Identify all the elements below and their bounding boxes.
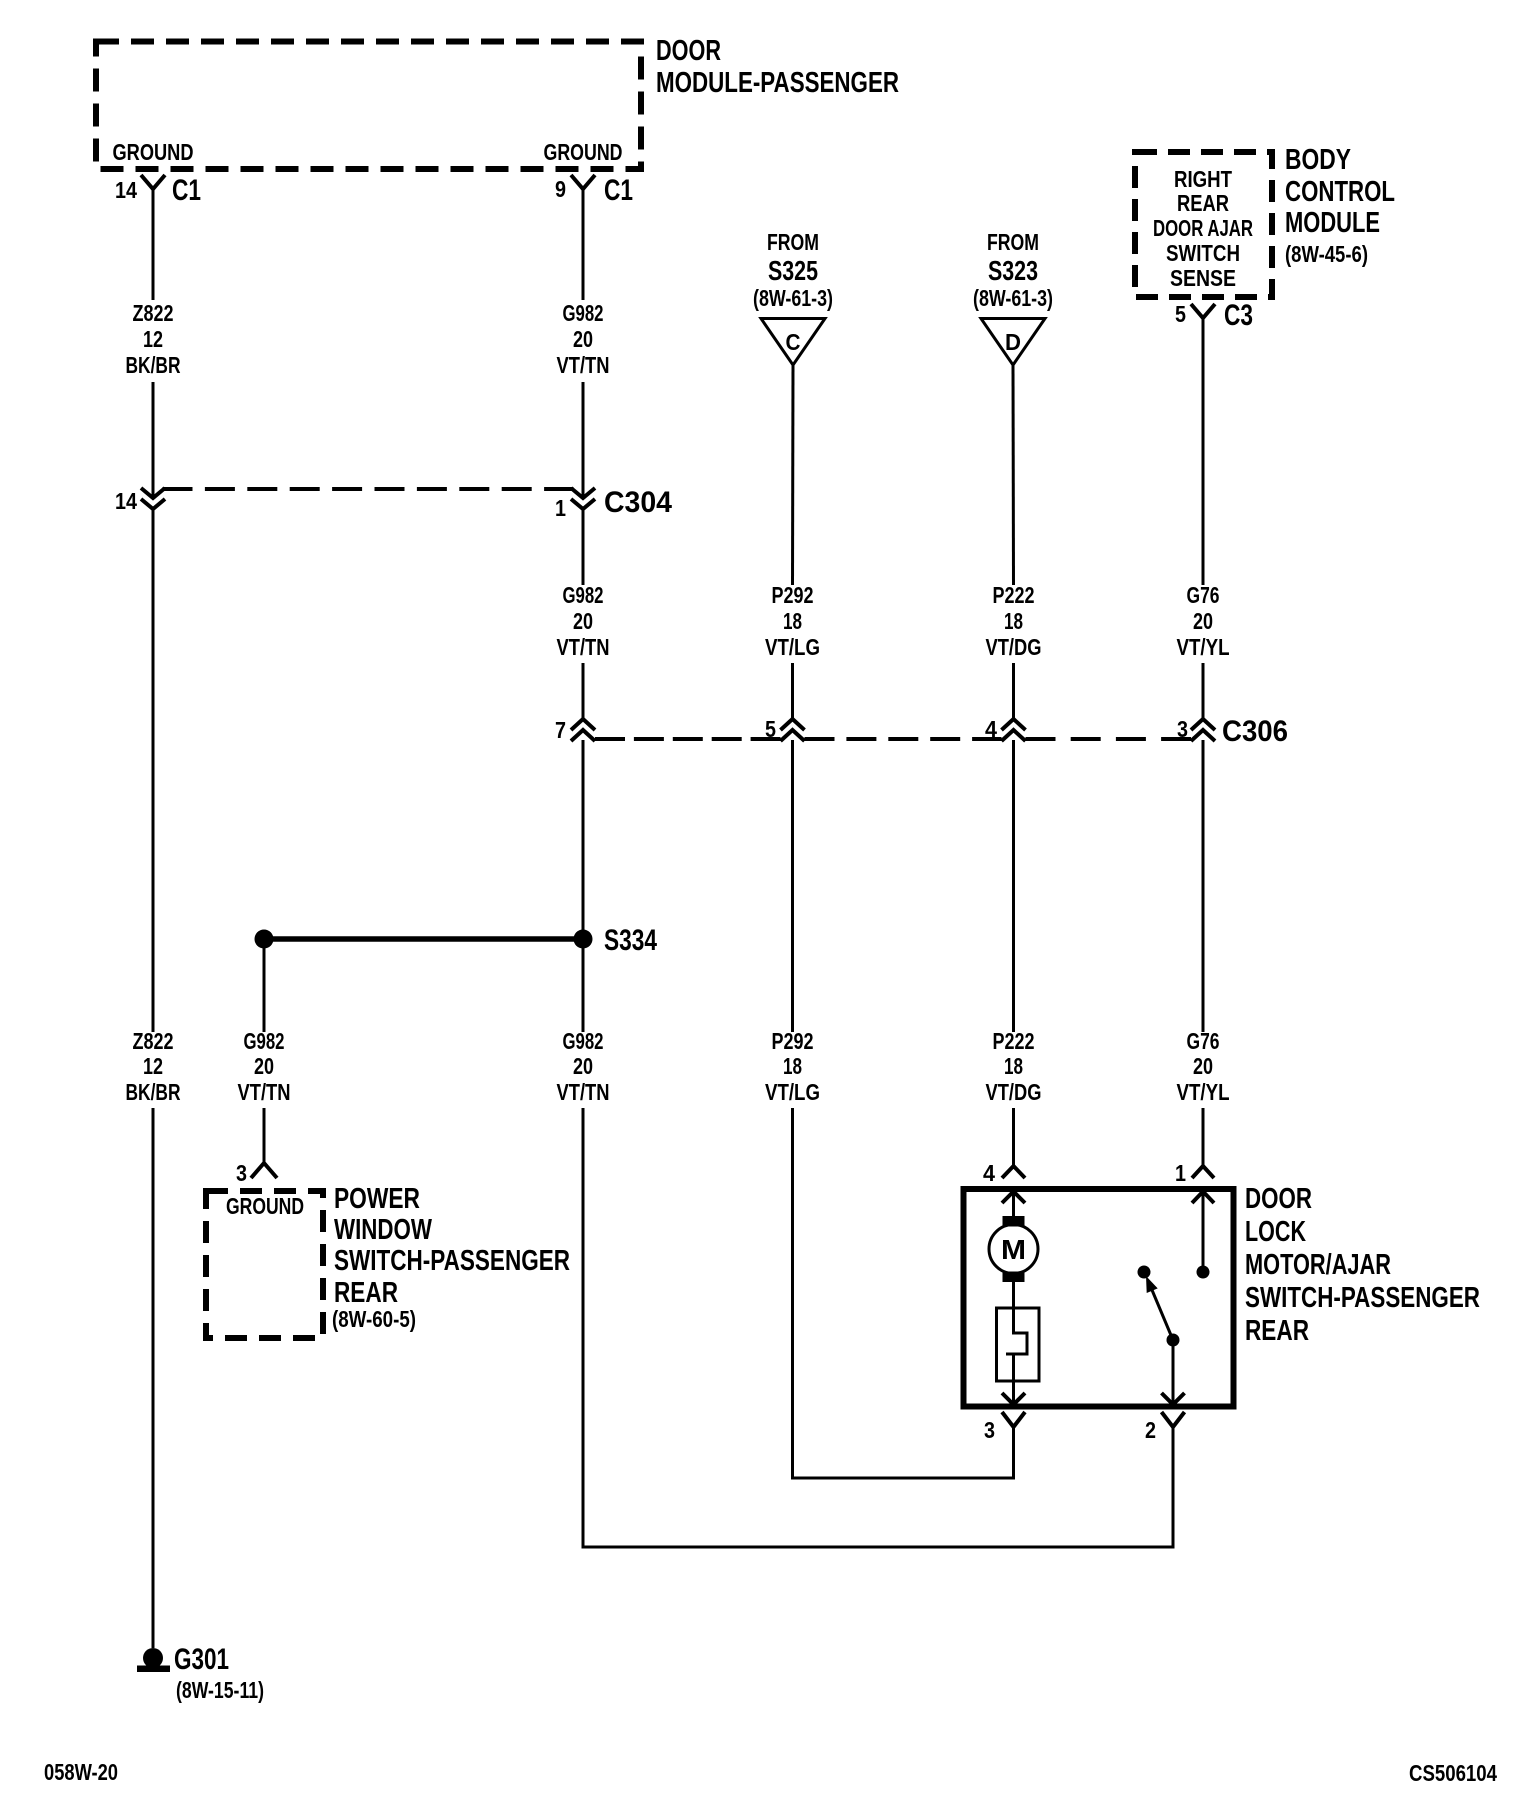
svg-text:VT/LG: VT/LG: [765, 1079, 820, 1105]
wire Z822 to ground G301: [152, 1108, 155, 1648]
splice source S323 label: [973, 229, 1053, 311]
pin 3 door lock connector: [984, 1412, 1025, 1443]
svg-text:S323: S323: [988, 255, 1038, 286]
label Z822 12 BK/BR (lower): [126, 1028, 181, 1105]
wire P292 route to pin 3: [793, 1108, 1014, 1478]
svg-text:G301: G301: [174, 1643, 229, 1676]
svg-text:3: 3: [236, 1160, 247, 1186]
wire resistor to pin 3: [1012, 1354, 1015, 1404]
svg-text:RIGHT: RIGHT: [1174, 166, 1232, 192]
label P222 18 VT/DG (mid): [986, 582, 1042, 660]
svg-text:SWITCH-PASSENGER: SWITCH-PASSENGER: [1245, 1282, 1480, 1314]
ajar switch blade: [1146, 1276, 1180, 1347]
svg-text:058W-20: 058W-20: [44, 1759, 118, 1785]
svg-text:7: 7: [555, 717, 566, 743]
svg-text:C3: C3: [1224, 299, 1253, 332]
svg-text:VT/DG: VT/DG: [986, 1079, 1042, 1105]
label P222 18 VT/DG (lower): [986, 1028, 1042, 1105]
svg-text:LOCK: LOCK: [1245, 1216, 1306, 1248]
wire motor to resistor: [1012, 1282, 1015, 1308]
svg-text:20: 20: [1193, 1053, 1213, 1079]
label G982 20 VT/TN (lower): [557, 1028, 610, 1105]
svg-text:(8W-45-6): (8W-45-6): [1285, 241, 1368, 267]
label P292 18 VT/LG (lower): [765, 1028, 820, 1105]
svg-text:BK/BR: BK/BR: [126, 352, 181, 378]
svg-text:18: 18: [783, 608, 802, 634]
wire Z822 below C304: [152, 509, 155, 1032]
label G76 20 VT/YL (mid): [1177, 582, 1230, 660]
svg-text:G982: G982: [563, 582, 604, 608]
connector C306 pin 4: [985, 716, 1026, 742]
svg-text:MODULE: MODULE: [1285, 207, 1380, 239]
svg-text:POWER: POWER: [334, 1183, 420, 1215]
svg-text:18: 18: [1004, 1053, 1023, 1079]
svg-text:12: 12: [143, 1053, 163, 1079]
svg-text:S325: S325: [768, 255, 818, 286]
connector C306 dashed line segment 3: [1026, 737, 1192, 741]
svg-text:20: 20: [573, 608, 593, 634]
svg-text:C1: C1: [604, 174, 633, 207]
wire G982 below C306 to S334: [582, 740, 585, 1032]
pin 2 inner arrow: [1162, 1393, 1185, 1405]
label G982 20 VT/TN (top): [557, 300, 610, 378]
pin 3 inner arrow: [1002, 1393, 1025, 1405]
svg-text:14: 14: [115, 177, 137, 203]
connector C304 pin 1: [555, 486, 672, 521]
svg-text:12: 12: [143, 326, 163, 352]
svg-text:18: 18: [783, 1053, 802, 1079]
wire G982 to C306: [582, 663, 585, 719]
thermal breaker resistor: [997, 1308, 1040, 1381]
svg-text:SWITCH-PASSENGER: SWITCH-PASSENGER: [334, 1245, 570, 1277]
svg-text:C306: C306: [1222, 715, 1288, 748]
svg-text:GROUND: GROUND: [544, 139, 623, 165]
svg-text:(8W-60-5): (8W-60-5): [332, 1306, 416, 1332]
wire Z822 to C304: [152, 382, 155, 498]
ground G301: [137, 1643, 264, 1703]
connector C306 pin 3: [1177, 715, 1288, 748]
wire G982 below C304: [582, 509, 585, 585]
body control module title: [1285, 144, 1395, 267]
wire G982 to C304: [582, 382, 585, 498]
splice source S325 label: [753, 229, 833, 311]
right rear door ajar switch sense label: [1153, 166, 1253, 291]
power window switch box: [206, 1191, 323, 1338]
svg-text:5: 5: [1175, 301, 1186, 327]
pin 5 C3 connector: [1175, 299, 1253, 332]
svg-text:(8W-61-3): (8W-61-3): [753, 285, 833, 311]
wire G76 to C306: [1202, 663, 1205, 719]
motor M wire from pin 4: [1012, 1192, 1015, 1217]
wire G982 branch from S334: [263, 948, 266, 1032]
svg-text:D: D: [1005, 329, 1021, 355]
svg-text:Z822: Z822: [133, 300, 174, 326]
svg-text:C1: C1: [172, 174, 201, 207]
wire P222 to C306: [1012, 663, 1015, 719]
svg-text:20: 20: [1193, 608, 1213, 634]
svg-text:MODULE-PASSENGER: MODULE-PASSENGER: [656, 67, 899, 99]
connector C306 pin 5: [765, 716, 805, 742]
svg-text:G982: G982: [563, 300, 604, 326]
svg-text:SWITCH: SWITCH: [1166, 240, 1240, 266]
svg-text:M: M: [1001, 1234, 1026, 1265]
svg-text:P222: P222: [993, 582, 1035, 608]
wire G982 branch to power window switch pin 3: [263, 1108, 266, 1163]
svg-text:14: 14: [115, 488, 137, 514]
svg-text:C: C: [786, 329, 801, 355]
svg-text:CONTROL: CONTROL: [1285, 176, 1395, 208]
wire P292 to C306: [791, 663, 794, 719]
svg-text:VT/TN: VT/TN: [238, 1079, 291, 1105]
svg-text:Z822: Z822: [133, 1028, 174, 1054]
svg-text:BK/BR: BK/BR: [126, 1079, 181, 1105]
svg-text:REAR: REAR: [1177, 190, 1229, 216]
wire P292 from triangle C: [791, 365, 795, 585]
wire ajar switch to pin 2: [1172, 1346, 1175, 1404]
svg-text:VT/YL: VT/YL: [1177, 1079, 1230, 1105]
svg-text:20: 20: [573, 326, 593, 352]
svg-text:GROUND: GROUND: [226, 1193, 304, 1219]
svg-text:C304: C304: [604, 486, 672, 519]
door lock motor/ajar switch box: [964, 1189, 1234, 1407]
svg-text:CS506104: CS506104: [1409, 1760, 1497, 1786]
svg-text:4: 4: [983, 1160, 995, 1186]
label G76 20 VT/YL (lower): [1177, 1028, 1230, 1105]
svg-text:VT/DG: VT/DG: [986, 634, 1042, 660]
connector C306 dashed line segment 2: [805, 737, 1002, 741]
svg-text:BODY: BODY: [1285, 144, 1351, 176]
svg-text:P222: P222: [993, 1028, 1035, 1054]
wire P222 below C306: [1012, 740, 1015, 1032]
svg-text:S334: S334: [604, 924, 657, 957]
svg-text:FROM: FROM: [987, 229, 1039, 255]
svg-text:3: 3: [984, 1417, 995, 1443]
svg-text:DOOR: DOOR: [656, 35, 721, 67]
svg-text:20: 20: [254, 1053, 274, 1079]
label Z822 12 BK/BR (top): [126, 300, 181, 378]
svg-text:P292: P292: [772, 582, 814, 608]
svg-text:(8W-61-3): (8W-61-3): [973, 285, 1053, 311]
wire G76 below C306: [1202, 740, 1205, 1032]
wire G982 route to pin 2: [583, 1108, 1173, 1547]
wire G982 from pin 9: [582, 189, 585, 300]
svg-text:VT/TN: VT/TN: [557, 1079, 610, 1105]
pin 4 door lock motor: [983, 1160, 1025, 1203]
svg-text:G76: G76: [1187, 582, 1220, 608]
pin 3 power window switch: [236, 1160, 277, 1186]
svg-text:REAR: REAR: [334, 1277, 398, 1309]
body control module box: [1135, 152, 1272, 297]
label G982 20 VT/TN (mid): [557, 582, 610, 660]
svg-text:FROM: FROM: [767, 229, 819, 255]
svg-text:3: 3: [1177, 716, 1188, 742]
door module-passenger box: [96, 42, 641, 170]
svg-text:VT/YL: VT/YL: [1177, 634, 1230, 660]
svg-text:P292: P292: [772, 1028, 814, 1054]
connector C304 dashed line: [163, 487, 574, 491]
door lock motor/ajar switch title: [1245, 1183, 1480, 1347]
wire P292 below C306: [791, 740, 794, 1032]
label P292 18 VT/LG (mid): [765, 582, 820, 660]
wire P222 from triangle D: [1012, 365, 1016, 585]
svg-text:9: 9: [555, 176, 566, 202]
svg-text:1: 1: [1175, 1160, 1186, 1186]
power window switch-passenger rear title: [332, 1183, 570, 1332]
svg-text:(8W-15-11): (8W-15-11): [176, 1677, 264, 1703]
wire G76 from pin 5: [1202, 318, 1205, 585]
pin 2 door lock connector: [1145, 1412, 1185, 1443]
wire P222 to door lock pin 4: [1012, 1108, 1015, 1166]
connector C304 pin 14: [115, 488, 165, 514]
svg-text:GROUND: GROUND: [113, 139, 194, 165]
svg-text:G982: G982: [563, 1028, 604, 1054]
svg-text:18: 18: [1004, 608, 1023, 634]
svg-text:DOOR: DOOR: [1245, 1183, 1312, 1215]
door module-passenger title: [656, 35, 899, 99]
pin 1 door lock ajar switch: [1175, 1160, 1214, 1203]
connector C306 pin 7: [555, 717, 595, 743]
svg-text:G76: G76: [1187, 1028, 1220, 1054]
label G982 20 VT/TN (branch): [238, 1028, 291, 1105]
pin 9 C1 connector: [555, 174, 633, 207]
svg-text:VT/LG: VT/LG: [765, 634, 820, 660]
connector C306 dashed line segment 1: [595, 737, 781, 741]
svg-text:2: 2: [1145, 1417, 1156, 1443]
svg-text:WINDOW: WINDOW: [334, 1214, 432, 1246]
pin 14 C1 connector: [115, 174, 201, 207]
svg-text:4: 4: [985, 716, 997, 742]
triangle C off-page connector: [761, 319, 825, 366]
svg-text:20: 20: [573, 1053, 593, 1079]
wire G76 to door lock pin 1: [1202, 1108, 1205, 1166]
svg-text:MOTOR/AJAR: MOTOR/AJAR: [1245, 1249, 1391, 1281]
svg-text:REAR: REAR: [1245, 1315, 1309, 1347]
motor M: [989, 1216, 1038, 1282]
svg-text:SENSE: SENSE: [1170, 265, 1236, 291]
svg-text:G982: G982: [244, 1028, 285, 1054]
wire Z822 from pin 14: [152, 189, 155, 300]
triangle D off-page connector: [981, 319, 1045, 366]
splice S334: [255, 924, 658, 957]
svg-text:5: 5: [765, 716, 776, 742]
svg-text:1: 1: [555, 495, 566, 521]
svg-text:VT/TN: VT/TN: [557, 634, 610, 660]
ajar switch contact pin 1: [1197, 1192, 1210, 1279]
svg-text:VT/TN: VT/TN: [557, 352, 610, 378]
ajar switch fixed contact open: [1138, 1266, 1151, 1279]
svg-text:DOOR AJAR: DOOR AJAR: [1153, 215, 1253, 241]
